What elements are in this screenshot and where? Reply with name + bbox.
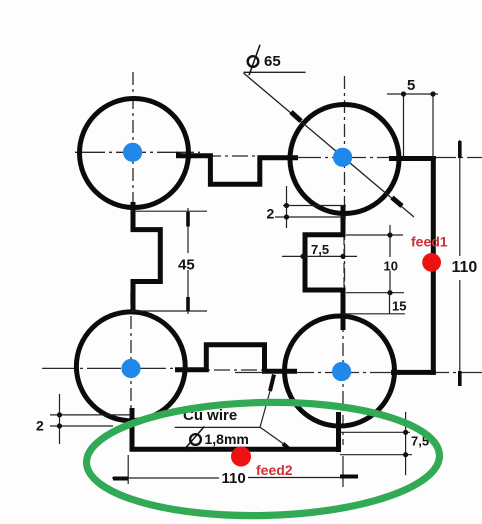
dimension 15 line <box>389 293 391 314</box>
wire BL down <box>130 408 135 449</box>
leader to bottom rail wire <box>260 427 283 443</box>
node feed2 red dot <box>231 447 251 467</box>
svg-text:7,5: 7,5 <box>311 242 329 257</box>
dimension 65 leader horizontal <box>244 71 306 73</box>
wire TR to right rail <box>389 156 436 161</box>
dimension 110 bottom line <box>112 477 219 479</box>
svg-text:15: 15 <box>392 299 406 314</box>
node center TL blue dot <box>123 143 142 162</box>
dimension 110 right line <box>459 140 461 256</box>
wire top link <box>176 156 298 185</box>
dimension 65 leader diagonal <box>244 73 415 217</box>
loop L2 top-right circle <box>290 105 399 214</box>
svg-text:110: 110 <box>222 470 246 487</box>
node center TR blue dot <box>333 148 352 167</box>
dimension 45 extensions <box>131 210 207 212</box>
wire BR down <box>336 412 341 452</box>
centerline top gap <box>205 155 290 157</box>
dimension 15 extension <box>343 313 406 315</box>
node center BL blue dot <box>121 359 140 378</box>
centerline TL vertical <box>132 72 134 218</box>
wire right rail vertical <box>431 156 436 375</box>
dimension 45 tick top <box>186 212 190 227</box>
svg-text:10: 10 <box>384 259 398 274</box>
centerline BL horizontal <box>42 367 195 369</box>
svg-text:feed2: feed2 <box>256 462 293 478</box>
dimension 7,5 BR line <box>405 412 407 475</box>
svg-text:2: 2 <box>267 206 275 222</box>
wire left link <box>133 202 160 313</box>
diameter symbol 1,8mm <box>190 434 201 445</box>
dimension 65 tangent tick upper <box>291 112 301 121</box>
dimension 45 tick bottom <box>186 297 190 312</box>
centerline BR vertical <box>342 295 344 445</box>
dimension 2 BL extension <box>59 394 61 444</box>
dimension 2 TR extension <box>286 186 288 228</box>
wire bottom rail <box>130 447 341 452</box>
dimension 10 extensions <box>346 234 403 236</box>
loop L4 bottom-right circle <box>285 316 395 426</box>
dimension 110 bottom tick right <box>340 475 358 479</box>
dimension 110 bottom extensions <box>127 455 129 484</box>
svg-text:1,8mm: 1,8mm <box>205 431 249 447</box>
label underline <box>175 426 261 428</box>
green highlight ellipse <box>85 399 440 519</box>
svg-text:2: 2 <box>36 418 44 434</box>
centerline TR horizontal <box>287 157 482 159</box>
loop L1 top-left circle <box>80 99 189 208</box>
centerline BR horizontal <box>235 372 482 374</box>
centerline TL horizontal <box>75 151 200 153</box>
dimension 45 line <box>187 208 189 253</box>
leader to bottom link wire <box>260 391 270 427</box>
node feed1 red dot <box>422 253 441 272</box>
centerline BL vertical <box>130 292 132 442</box>
loop L3 bottom-left circle <box>76 312 185 421</box>
svg-text:45: 45 <box>178 257 195 274</box>
svg-text:65: 65 <box>264 53 281 70</box>
dimension 110 bottom tick left <box>113 477 128 481</box>
node center BR blue dot <box>332 362 351 381</box>
centerline bottom gap <box>187 369 283 371</box>
dimension 10 line <box>389 225 391 257</box>
centerline TR vertical <box>344 76 346 312</box>
centerline right gap <box>343 235 345 290</box>
svg-text:feed1: feed1 <box>411 234 448 250</box>
dimension 7,5 BR extensions <box>339 431 411 433</box>
dimension 5 line <box>387 93 438 95</box>
dimension 65 tangent tick lower <box>392 198 402 207</box>
wire BR to right rail <box>391 370 436 375</box>
diameter symbol of 65 <box>248 56 259 67</box>
svg-text:110: 110 <box>452 259 478 276</box>
dimension 110 right tick top <box>458 141 462 158</box>
wire right link <box>305 206 343 331</box>
svg-text:5: 5 <box>407 77 415 94</box>
dimension 7,5 TR line <box>282 255 357 257</box>
dimension 110 right tick bottom <box>458 371 462 386</box>
wire bottom link <box>175 345 297 372</box>
arrow on TL centerline <box>176 152 184 157</box>
dimension 5 extension lines <box>403 94 405 156</box>
